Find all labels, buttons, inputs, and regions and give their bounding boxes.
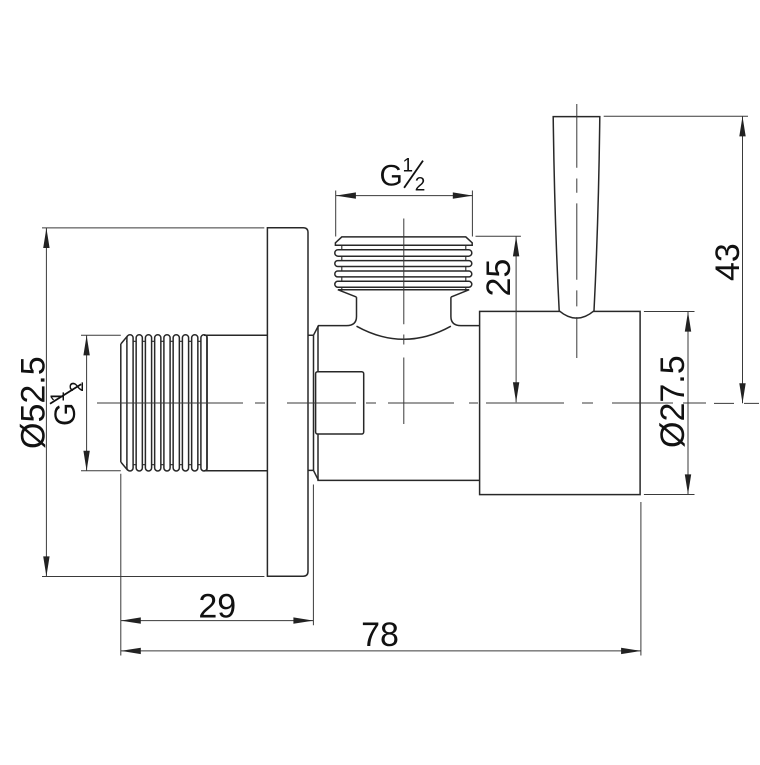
svg-text:Ø27.5: Ø27.5 — [654, 355, 692, 448]
dim line 78 — [121, 650, 641, 652]
arrows 25 — [513, 236, 519, 256]
dim line G half top — [336, 195, 473, 197]
handle lever — [553, 117, 600, 319]
arrowheads — [43, 116, 746, 654]
valve body — [318, 297, 480, 480]
ext lines G half top — [336, 191, 473, 237]
svg-text:G: G — [49, 403, 82, 426]
inlet thread end-face chamfer — [121, 336, 128, 471]
top port thread capsules — [335, 250, 472, 287]
svg-text:Ø52.5: Ø52.5 — [14, 356, 52, 449]
handle vertical centerline — [576, 104, 578, 358]
boss-body intersection arc — [357, 326, 451, 339]
arrows 29 — [121, 617, 141, 623]
ext lines D52.5 — [42, 228, 264, 577]
top port thread cap — [335, 237, 472, 245]
dim line G half left — [86, 335, 88, 470]
arrows G half left — [83, 335, 89, 355]
ext line 78 — [640, 502, 642, 656]
svg-text:78: 78 — [361, 616, 399, 654]
inlet thread root lines — [126, 341, 205, 464]
outlet cylinder — [480, 311, 640, 494]
body chamfers from collar — [314, 326, 319, 481]
arrows D52.5 — [43, 228, 49, 248]
dimension texts — [14, 156, 747, 654]
wall flange — [267, 228, 308, 577]
dimension and extension lines — [42, 116, 748, 655]
inlet shank — [204, 335, 267, 470]
svg-text:2: 2 — [415, 175, 426, 196]
dim line 25 — [515, 236, 517, 402]
ext lines 29 — [121, 474, 314, 656]
arrows 78 — [121, 648, 141, 654]
dim line D27.5 — [687, 312, 689, 495]
collar behind flange — [308, 335, 314, 470]
dim line D52.5 — [45, 228, 47, 576]
centerlines — [97, 104, 759, 424]
svg-text:43: 43 — [709, 243, 747, 281]
top port root lines — [342, 245, 466, 290]
dim line 43 — [742, 116, 744, 403]
svg-text:25: 25 — [480, 259, 518, 297]
ext lines G half left — [81, 335, 121, 470]
svg-text:2: 2 — [67, 381, 88, 392]
inlet thread crest capsules — [127, 335, 207, 471]
main horizontal centerline — [97, 402, 759, 404]
svg-text:G: G — [380, 160, 403, 193]
ext line 25 — [476, 235, 521, 237]
top port bottom + neck — [338, 290, 469, 297]
svg-text:1: 1 — [403, 156, 414, 177]
arrows 43 — [739, 116, 745, 136]
boss on body left — [316, 372, 364, 434]
arrows G half top — [336, 192, 356, 198]
arrows D27.5 — [685, 312, 691, 332]
ext lines D27.5 — [644, 312, 695, 495]
dim line 29 — [121, 620, 314, 622]
ext line 43 — [604, 115, 748, 117]
svg-text:29: 29 — [198, 588, 236, 626]
top port vertical centerline — [403, 219, 405, 425]
